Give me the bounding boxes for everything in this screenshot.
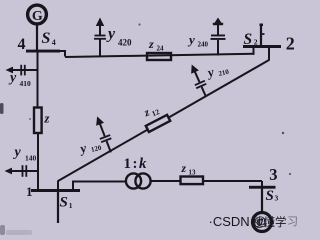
injection stub above bus 2 (260, 24, 262, 46)
svg-text:24: 24 (157, 45, 165, 53)
svg-text:S: S (60, 195, 68, 211)
scan blob left edge (0, 103, 4, 114)
svg-text:4: 4 (52, 38, 56, 47)
svg-text:140: 140 (25, 154, 37, 163)
svg-text:240: 240 (198, 41, 209, 49)
svg-text:z: z (148, 37, 154, 51)
wire G1 to bus 4 (36, 26, 38, 51)
shunt capacitor y410 wire (11, 69, 37, 71)
wire diagonal line 1-2 (58, 60, 269, 181)
label y120 (rotated) (77, 136, 103, 157)
shunt capacitor y120 (on diagonal) (92, 114, 116, 154)
shunt capacitor y240 stem (217, 40, 219, 56)
shunt capacitor y140 arrowhead (5, 168, 13, 175)
svg-text:G: G (257, 215, 267, 230)
svg-text:y: y (187, 32, 195, 47)
svg-text:z: z (44, 112, 50, 126)
wire jog up into bus 2 from diagonal (268, 47, 270, 61)
svg-text:3: 3 (275, 194, 279, 203)
impedance z24 box (147, 53, 171, 60)
bus 3 bar (249, 186, 276, 189)
label y210 (rotated) (204, 60, 230, 81)
wire riser bus1 to transformer line (72, 182, 74, 191)
svg-text:1: 1 (69, 201, 73, 210)
wire z box to bus 1 (37, 133, 39, 190)
svg-text:y: y (106, 26, 116, 43)
shunt capacitor y240 arrow (217, 24, 219, 35)
shunt capacitor y140 wire (10, 170, 38, 172)
svg-text:3: 3 (269, 165, 277, 184)
shunt capacitor y140 plates (22, 165, 24, 177)
svg-text:y: y (13, 145, 22, 160)
transformer T1 circles (126, 173, 141, 188)
impedance z (line 4-1) box (34, 108, 42, 134)
wire bus1 to transformer (72, 181, 126, 183)
wire bus 3 to generator G3 (261, 188, 263, 212)
shunt capacitor y240 plates (211, 38, 226, 40)
generator G1 (top left) (28, 5, 47, 24)
svg-text:G: G (32, 9, 43, 24)
svg-text:S: S (42, 30, 51, 47)
wire riser bus1 to diagonal line 1-2 (57, 181, 59, 191)
impedance z13 box (181, 177, 204, 185)
svg-text:1:k: 1:k (124, 156, 148, 172)
wire jog up into bus 2 (253, 47, 255, 55)
wire jog down into bus 3 (261, 181, 263, 186)
svg-text:y: y (8, 71, 17, 86)
svg-text:410: 410 (20, 79, 32, 88)
svg-text:4: 4 (18, 36, 26, 53)
wire bus4 to z box (37, 52, 39, 108)
svg-text:z: z (181, 163, 187, 175)
wire step down (64, 50, 66, 57)
wire z13 to bus 3 (203, 180, 262, 182)
svg-text:S: S (266, 188, 274, 204)
shunt capacitor y420 plates (94, 38, 106, 40)
svg-text:2: 2 (286, 34, 295, 54)
label z12 (rotated) (142, 103, 161, 121)
generator G3 (bottom right) (253, 213, 272, 232)
load wire S1 below bus 1 (57, 192, 59, 223)
shunt capacitor y420 stem (99, 39, 101, 57)
bus 4 bar (26, 50, 60, 53)
svg-text:习: 习 (287, 216, 298, 228)
svg-text:420: 420 (118, 38, 132, 48)
shunt capacitor y410 arrowhead (6, 67, 14, 74)
wire transformer to z13 (150, 180, 181, 182)
wire bus4 to step (line 4-2) (59, 50, 66, 52)
bus 1 bar (31, 189, 80, 192)
svg-text:13: 13 (189, 169, 197, 177)
shunt capacitor y420 arrow (99, 24, 101, 35)
wire line 4-2 horizontal (65, 54, 254, 57)
shunt capacitor y210 (on diagonal) (187, 62, 211, 98)
shunt capacitor y410 plates (20, 65, 22, 76)
scan blob bottom left (0, 225, 5, 235)
speck (282, 132, 284, 134)
impedance z12 box (rotated) (146, 115, 170, 132)
bus 2 bar (243, 45, 281, 48)
